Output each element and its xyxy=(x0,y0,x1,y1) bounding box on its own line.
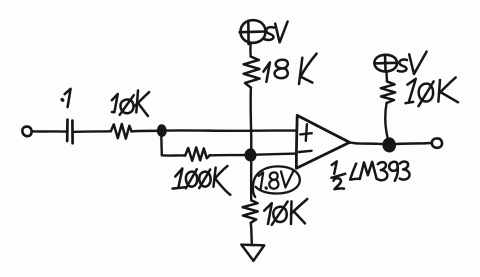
label 10K (series resistor) xyxy=(112,91,149,117)
capacitor C1 left plate xyxy=(66,120,69,141)
resistor R4 10K (to ground) xyxy=(243,200,258,223)
wire input to capacitor xyxy=(32,130,66,133)
output terminal circle xyxy=(432,138,442,147)
wire 18K down to node B (crossing signal wire) xyxy=(249,88,252,151)
wire 10K to ground xyxy=(251,223,252,244)
label 5V (top) xyxy=(265,22,288,43)
label 10K (bottom) xyxy=(264,199,307,225)
resistor R2 100K (feedback) xyxy=(185,147,210,160)
1.8V annotation ellipse xyxy=(253,166,300,197)
wire 10K pull-up down to node C xyxy=(385,103,388,140)
label 1.8V xyxy=(259,170,294,189)
label 100K xyxy=(173,166,231,195)
input terminal circle xyxy=(22,127,31,137)
op-amp comparator U1 triangle xyxy=(296,115,349,168)
wire right 5V to 10K pull-up xyxy=(385,72,388,82)
5V supply symbol (right) xyxy=(374,55,397,72)
wire 100K to node B xyxy=(210,154,248,157)
wire node B to comparator - input xyxy=(255,154,297,155)
node A junction dot xyxy=(159,126,165,135)
wire node C to output terminal xyxy=(393,143,431,144)
label .1 xyxy=(62,89,70,107)
label 1/2 LM393 xyxy=(331,161,409,189)
resistor R5 10K pull-up (vertical) xyxy=(381,81,395,103)
wire 5V to 18K xyxy=(249,43,252,57)
label 5V (right) xyxy=(398,52,427,74)
wire node B down to 10K xyxy=(250,159,253,200)
resistor R3 18K (vertical) xyxy=(244,57,260,88)
plus input marking xyxy=(300,124,312,141)
ground symbol xyxy=(241,245,264,261)
resistor R1 10K (series) xyxy=(111,124,132,139)
node C junction dot xyxy=(384,140,393,151)
capacitor C1 right plate xyxy=(71,121,74,144)
label 10K (pull-up) xyxy=(406,77,459,106)
wire capacitor to resistor 10K xyxy=(73,130,110,133)
node B junction dot xyxy=(246,150,254,160)
minus input marking xyxy=(299,151,312,152)
wire comparator output to node C xyxy=(350,142,388,144)
wire node A down xyxy=(160,132,163,155)
label 18K xyxy=(263,54,316,84)
wire resistor to node A xyxy=(132,130,159,133)
wire to 100K xyxy=(162,154,185,157)
wire node A to comparator + input xyxy=(166,129,297,132)
5V supply symbol (top) xyxy=(240,20,266,44)
